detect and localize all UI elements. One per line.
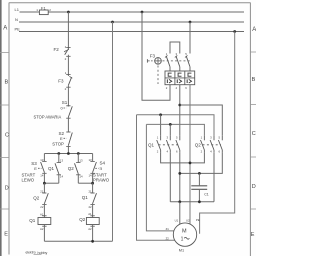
svg-text:14: 14 [89,174,93,178]
svg-text:A2: A2 [40,227,44,231]
node merge right [91,182,94,185]
svg-text:A2: A2 [88,227,92,231]
wire branch to Q2 pole3 [180,105,223,135]
node merge left [43,182,46,185]
bus N [19,21,244,23]
svg-text:Z1: Z1 [166,227,170,231]
svg-text:B: B [5,80,9,86]
node rail M cap join [198,200,201,203]
svg-text:Q1: Q1 [148,142,155,147]
svg-text:S4: S4 [100,160,106,165]
wire N return [112,22,114,241]
svg-text:Q2: Q2 [33,196,40,201]
svg-text:F1: F1 [41,5,46,10]
bus PE [19,31,244,33]
wire L1 power feed loop [142,12,170,100]
breaker F3 [147,52,194,90]
wire F3 top bridge poles 1-2 [170,42,180,54]
row tick right 1 [250,51,256,53]
bus L1 [20,11,245,13]
row tick right 4 [250,208,256,210]
node rail S2 [67,152,70,155]
pushbutton S4 START PRAWO [89,154,110,184]
svg-text:N: N [15,17,18,22]
wire F3 pole3 out N long run to motor [189,85,191,224]
aux contact Q2 no [68,154,83,184]
node branch to Q2 pole3 [178,104,181,107]
contactor Q2 main contacts [195,135,223,153]
node rail2 Q1 pole2 [169,123,172,126]
wire motor winding W2 [146,124,174,230]
rail B cap top [180,152,223,173]
svg-text:PRAWO: PRAWO [93,178,110,183]
svg-text:C: C [5,133,9,139]
svg-text:D: D [252,184,256,190]
wire rail feed 1 [137,115,215,136]
svg-text:E: E [251,232,255,238]
svg-text:F2: F2 [54,47,60,52]
svg-text:PE: PE [196,218,200,222]
svg-text:S1: S1 [62,100,68,105]
wire F3 pole2 out to Q1 pole3 [179,85,181,136]
contactor Q1 main contacts [148,135,180,153]
svg-text:22: 22 [40,205,44,209]
interlock contact Q1 nc [82,183,97,217]
wire Q1 pole3 out down [179,152,181,202]
merge rail left [44,182,58,184]
svg-text:A: A [3,26,7,32]
svg-text:E: E [34,166,37,171]
wire PE run to motor [200,32,235,234]
motor M1 [166,218,200,252]
svg-text:22: 22 [89,205,93,209]
svg-text:U1: U1 [175,219,179,223]
node rail M pole3 join [178,200,181,203]
svg-text:E: E [60,136,63,141]
wire Q1 pole1 top [160,115,162,136]
svg-text:13: 13 [79,159,83,163]
wire F3aux to S1 [67,85,69,106]
node N power tap [189,21,192,24]
svg-text:B: B [252,77,256,83]
pushbutton S1 STOP AWARIA [34,100,73,119]
wire Q1 pole2 out down [169,152,171,202]
svg-text:Q1: Q1 [82,195,89,200]
svg-text:Q2: Q2 [68,166,75,171]
rail A outputs pole1 with N [161,152,205,163]
node L1 control tap [67,11,70,14]
node rail1 Q1 pole1 [159,113,162,116]
wire Q2 pole2 out down [213,152,215,202]
pushbutton S2 STOP [52,131,72,146]
svg-text:Q2: Q2 [79,217,86,222]
svg-text:13: 13 [60,159,64,163]
wire S1 to S2 [67,117,69,132]
node rail A N join [189,162,192,165]
coil Q2 [79,212,99,242]
svg-text:PE: PE [15,27,21,32]
row tick left 4 [0,208,9,210]
node L1 power tap [141,11,144,14]
row tick left 3 [0,157,9,159]
svg-text:Ǝ: Ǝ [99,166,102,171]
merge rail right [78,182,92,184]
breaker F2 [54,45,71,61]
svg-text:U2: U2 [186,219,190,223]
pushbutton S3 START LEWO [22,154,47,184]
row tick left 1 [0,52,9,54]
branch rail top [44,153,92,155]
row tick right 2 [250,104,256,106]
node rail Q1aux [57,152,60,155]
node PE tap [233,30,236,33]
scan page left edge [0,0,2,256]
frame top border [9,2,251,4]
capacitor C1 [191,173,209,201]
coil Q1 [29,212,51,241]
svg-text:D: D [5,186,9,192]
aux contact Q1 no [48,154,63,184]
wire control hot L1 down to F2 [67,12,69,50]
svg-text:A: A [252,27,256,33]
svg-text:F3: F3 [150,54,156,59]
row tick right 3 [250,156,256,158]
coil return rail [44,240,112,242]
svg-text:Q1: Q1 [29,218,36,223]
aux contact F3 [58,71,72,91]
wire motor lead U1 [179,202,181,224]
wire motor winding W1 [137,115,175,241]
node rail B cap lead [198,172,201,175]
wire rail feed 2 [146,124,204,135]
node N control return tap [111,21,114,24]
svg-text:L1: L1 [15,7,20,12]
linkage dashed Q2 [203,144,222,146]
svg-text:STOP: STOP [52,141,64,146]
frame left border [8,3,10,255]
wire S2 to branch rail [67,145,69,153]
svg-text:14: 14 [79,175,83,179]
fuse F1 [36,5,51,14]
node rail B left [178,172,181,175]
svg-text:14: 14 [60,175,64,179]
wire N to F3 pole3 [189,22,191,54]
svg-text:14: 14 [40,174,44,178]
svg-text:elektro: elektro [26,250,36,254]
svg-text:Q2: Q2 [195,142,202,147]
node coil rail Q2 [91,240,94,243]
svg-text:LEWO: LEWO [22,178,35,183]
svg-text:_hobby: _hobby [35,251,48,255]
svg-text:A1: A1 [88,212,92,216]
svg-text:F3: F3 [58,79,64,84]
interlock contact Q2 nc [33,183,48,217]
node rail Q2aux [77,152,80,155]
svg-text:E: E [4,232,8,238]
svg-text:C: C [252,131,256,137]
row tick left 2 [0,104,9,106]
rail M motor feed [170,201,214,203]
svg-text:Q1: Q1 [48,166,55,171]
svg-text:C1: C1 [204,192,209,196]
linkage dashed Q1 [159,144,181,146]
svg-text:Z2: Z2 [166,237,170,241]
svg-text:M1: M1 [179,248,184,252]
frame right border [249,3,251,256]
wire Q1 pole2 top [169,124,171,135]
svg-text:1: 1 [181,236,184,242]
svg-text:STOP AWARIA: STOP AWARIA [34,114,62,119]
wire F2 to F3aux [67,55,69,76]
svg-text:M: M [182,228,187,234]
